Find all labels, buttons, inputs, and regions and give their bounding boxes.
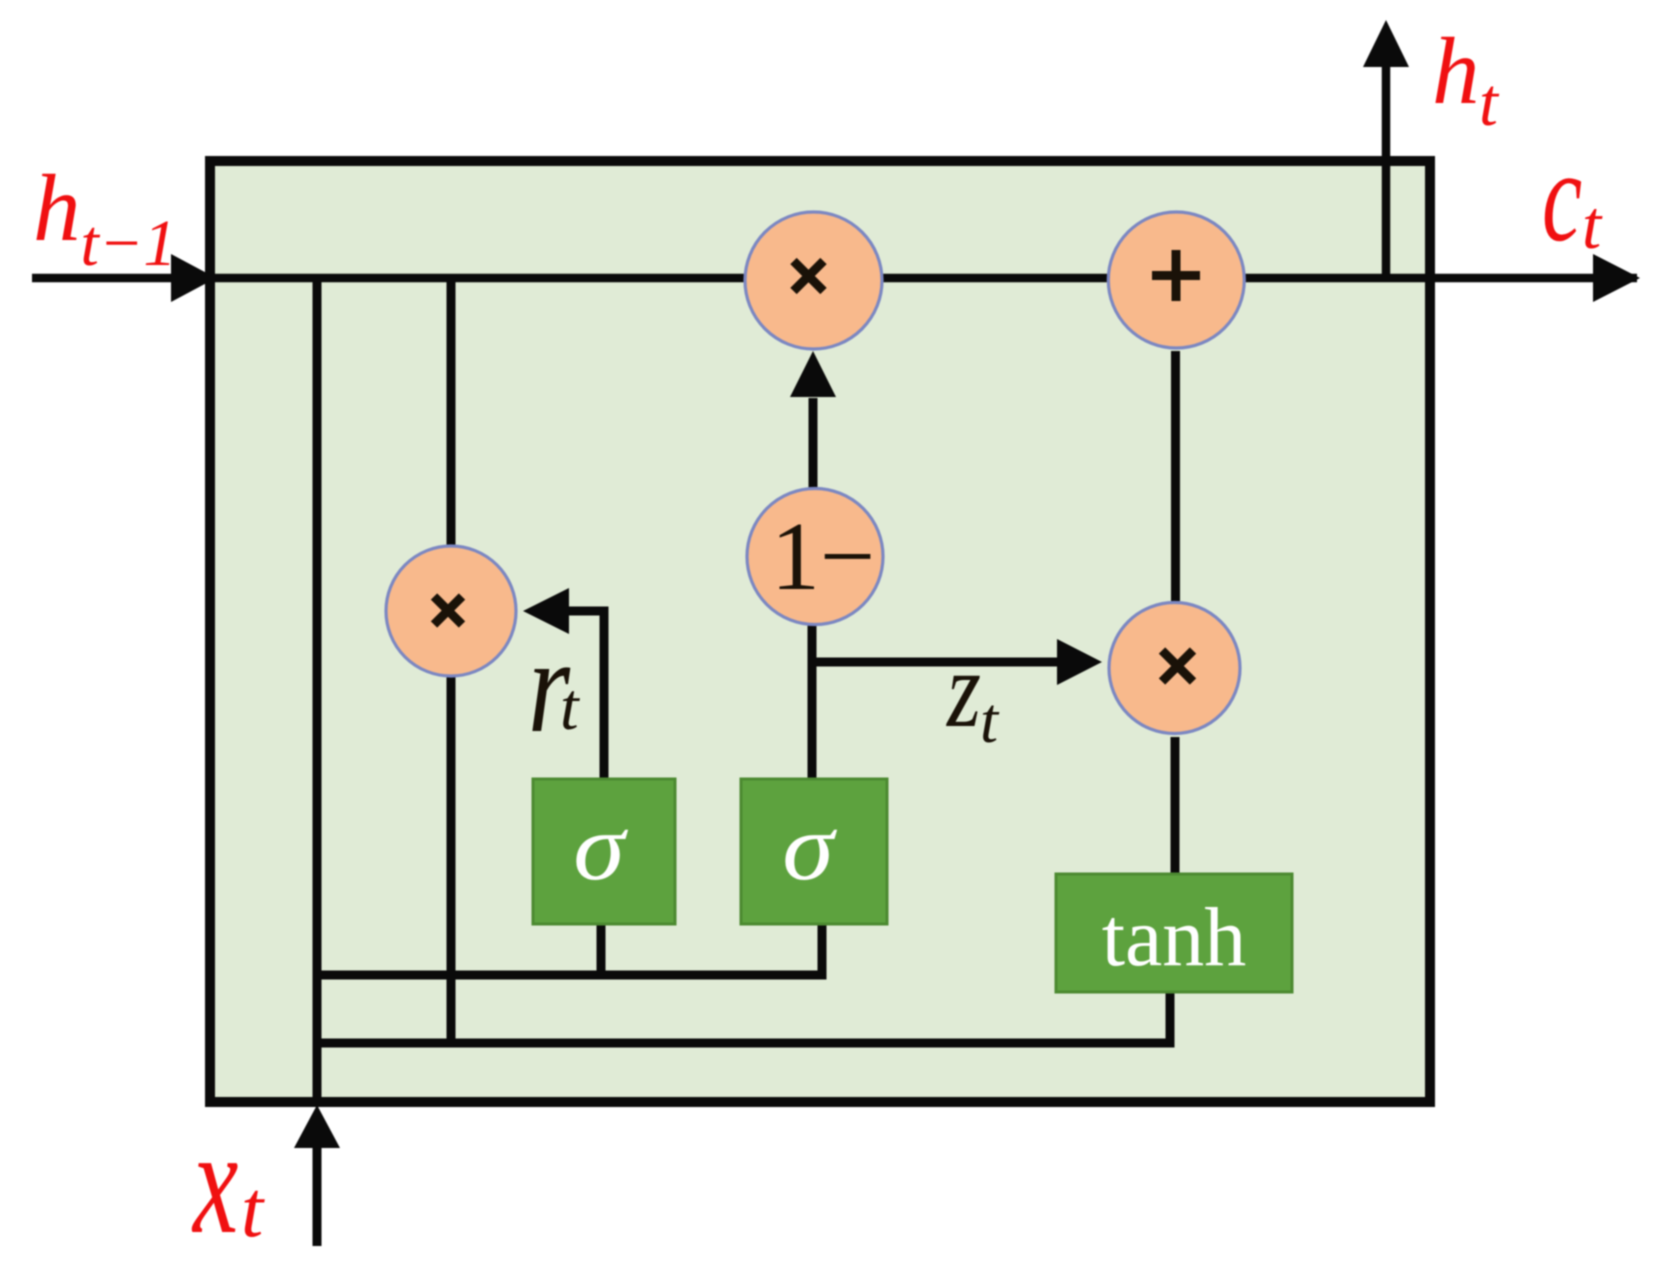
sigma z gate box	[741, 779, 887, 924]
arrowhead x_t into cell	[294, 1105, 340, 1148]
wire: h_t output upward	[1382, 66, 1391, 280]
wire: x_t vertical bus	[313, 280, 322, 1102]
svg-text:ht−1: ht−1	[33, 155, 176, 280]
arrowhead z_t into update multiply	[1057, 639, 1102, 685]
tanh gate box	[1056, 874, 1292, 992]
wire: main horizontal state line h_{t-1} to c_t	[32, 274, 1637, 283]
arrowhead r_t into reset multiply	[523, 588, 569, 634]
arrowhead into top multiply	[790, 351, 836, 397]
wire: update multiply down to tanh	[1171, 737, 1180, 874]
node: update multiply circle	[1109, 603, 1240, 734]
svg-text:t: t	[1479, 64, 1500, 140]
top multiply symbol	[794, 261, 824, 291]
svg-text:σ: σ	[573, 794, 628, 900]
arrowhead c_t output	[1593, 254, 1640, 302]
plus symbol	[1152, 250, 1200, 301]
svg-text:t: t	[560, 670, 580, 744]
arrowhead into cell (h_{t-1} input)	[171, 254, 216, 302]
svg-text:h: h	[1432, 18, 1480, 124]
wire: sigma r bottom stub	[597, 924, 606, 975]
reset multiply symbol	[434, 597, 462, 625]
svg-text:t: t	[241, 1166, 265, 1254]
update multiply symbol	[1162, 651, 1193, 682]
wire: sigma z output up to 1-minus	[808, 625, 817, 779]
node: 1-minus circle	[747, 489, 883, 625]
svg-text:c: c	[1542, 125, 1582, 269]
node: plus circle	[1108, 212, 1244, 348]
arrowhead h_t	[1363, 20, 1409, 67]
wire: z_t branch to update multiply	[812, 658, 1058, 667]
wire: sigma r output to reset multiply	[566, 611, 604, 779]
wire: bus B to tanh	[317, 991, 1170, 1043]
GRU cell body	[210, 161, 1430, 1102]
wire: h vertical branch	[447, 280, 456, 1043]
wire: bus A to sigma gates	[317, 924, 822, 975]
sigma r gate box	[533, 779, 675, 924]
svg-text:x: x	[191, 1099, 238, 1265]
wire: x_t input from below	[313, 1144, 322, 1246]
svg-text:σ: σ	[782, 794, 837, 900]
svg-text:t: t	[1582, 187, 1603, 263]
svg-text:t: t	[980, 685, 1000, 757]
svg-text:z: z	[945, 630, 981, 750]
wire: plus node down to update multiply	[1171, 351, 1180, 601]
wire: 1-minus output up to top multiply	[809, 398, 818, 488]
svg-text:1−: 1−	[771, 503, 875, 611]
node: top multiply circle	[745, 212, 882, 349]
node: reset multiply circle	[386, 546, 516, 676]
svg-text:tanh: tanh	[1102, 891, 1247, 984]
